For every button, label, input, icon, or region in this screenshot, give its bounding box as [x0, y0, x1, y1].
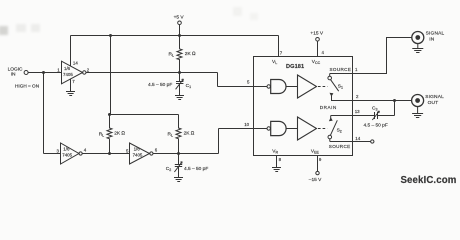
- svg-text:SIGNAL: SIGNAL: [425, 94, 444, 100]
- svg-text:4.5 – 50 pF: 4.5 – 50 pF: [148, 82, 172, 88]
- svg-text:13: 13: [355, 109, 360, 114]
- svg-text:7405: 7405: [62, 153, 72, 158]
- junction +5V rail at feed: [109, 34, 112, 37]
- wire U1A output to node B: [86, 72, 218, 74]
- junction U1B out node: [108, 152, 111, 155]
- resistor RL lower-mid 2K: [176, 115, 181, 154]
- wire gate B to buffer B: [286, 128, 297, 130]
- driver gate B input bubble: [267, 127, 270, 130]
- ground below U1A: [66, 92, 75, 96]
- wire step up to pin 10: [218, 129, 220, 154]
- svg-text:14: 14: [73, 61, 78, 66]
- connector SIGNAL IN: [412, 32, 424, 44]
- junction +5V rail at terminal: [178, 34, 181, 37]
- driver gate A body: [271, 80, 286, 94]
- svg-text:SOURCE: SOURCE: [329, 144, 351, 149]
- ground below C2: [174, 178, 183, 182]
- wire rail to DG181 pin 7: [278, 36, 280, 57]
- inverter U1C 1/6 7405 triangle: [130, 143, 150, 164]
- svg-text:1/6: 1/6: [63, 146, 70, 151]
- terminal -15V: [316, 171, 319, 174]
- switch S2 drain arrowhead: [329, 117, 333, 121]
- dashed control line B: [318, 128, 327, 130]
- switch S1 drain arrowhead: [330, 93, 334, 97]
- switch S2 arm: [330, 120, 337, 135]
- svg-text:+15 V: +15 V: [310, 31, 323, 37]
- buffer B triangle: [298, 117, 317, 140]
- driver gate A input bubble: [267, 85, 270, 88]
- inverter U1C output bubble: [150, 152, 153, 155]
- wire C3 up to output node: [394, 101, 396, 116]
- capacitor C1 variable 4.5-50 pF: [176, 73, 184, 96]
- resistor RL lower-left 2K: [107, 115, 112, 154]
- wire source S1 pin 1 to SIGNAL IN: [330, 38, 412, 74]
- wire lower feed horizontal: [111, 114, 179, 116]
- wire U1B output to U1C input: [82, 153, 129, 155]
- inverter U1A output bubble: [83, 71, 86, 74]
- wire into DG181 pin 5: [218, 86, 268, 88]
- DG181 package box U2: [254, 57, 353, 156]
- wire inverter U1A pin 14 to rail: [70, 36, 72, 67]
- capacitor C2 variable 4.5-50 pF: [174, 154, 182, 178]
- svg-text:SOURCE: SOURCE: [330, 67, 352, 72]
- wire gate A to buffer A: [286, 86, 297, 88]
- svg-text:7405: 7405: [133, 153, 143, 158]
- inverter U1A 1/6 7405 triangle: [62, 61, 83, 84]
- terminal +5V: [178, 21, 182, 25]
- buffer A triangle: [298, 75, 317, 98]
- junction lower feed at RL: [108, 113, 111, 116]
- switch S1 stub to source wire: [329, 74, 331, 77]
- svg-text:7405: 7405: [63, 72, 73, 77]
- ground below SIGNAL OUT: [412, 107, 423, 118]
- driver gate B body: [271, 121, 286, 135]
- terminal +15V: [316, 38, 320, 42]
- junction node A at logic input split: [42, 71, 45, 74]
- ground below C1: [175, 96, 184, 100]
- wire U1C output to step: [153, 153, 218, 155]
- capacitor C3 variable 4.5-50 pF: [372, 111, 394, 120]
- ground below pin 8: [272, 168, 281, 172]
- wire node A down to lower inverter: [43, 73, 45, 154]
- switch S1 drain wire: [332, 96, 353, 101]
- wire +5V terminal stem to resistor: [179, 25, 181, 49]
- inverter U1B 1/6 7405 triangle: [61, 143, 79, 164]
- svg-text:IN: IN: [11, 71, 16, 77]
- junction U1C out node at C2: [177, 152, 180, 155]
- svg-text:HIGH = ON: HIGH = ON: [15, 83, 39, 88]
- wire DG181 pin 9 stem to -15V: [317, 156, 319, 172]
- svg-text:OUT: OUT: [428, 100, 439, 106]
- terminal LOGIC IN: [24, 71, 28, 75]
- svg-text:2K Ω: 2K Ω: [114, 131, 125, 137]
- switch S2 drain wire: [330, 116, 332, 121]
- svg-text:10: 10: [244, 122, 249, 127]
- open terminal pin 14: [371, 140, 374, 143]
- wire DG181 pin 8 stem: [276, 156, 278, 168]
- switch S1 arm: [331, 80, 339, 92]
- inverter U1B output bubble: [79, 152, 82, 155]
- wire step down to pin 5: [217, 73, 219, 87]
- resistor RL top 2K: [177, 49, 182, 73]
- svg-text:1/6: 1/6: [64, 66, 71, 71]
- junction node B at C1: [178, 71, 181, 74]
- wire U1A pin 7 to ground: [70, 79, 72, 92]
- svg-text:1/6: 1/6: [134, 146, 141, 151]
- svg-text:4.5 – 50 pF: 4.5 – 50 pF: [184, 166, 208, 172]
- wire DG181 pin 4 stem: [317, 41, 319, 56]
- wire into DG181 pin 10: [219, 128, 268, 130]
- switch S2 source contact circle: [328, 135, 332, 139]
- junction signal out node: [393, 99, 396, 102]
- wire rail feed down to lower resistors: [110, 36, 112, 115]
- svg-text:SeekIC.com: SeekIC.com: [401, 175, 457, 186]
- wire into U1B input: [44, 153, 61, 155]
- wire LOGIC IN to U1A input: [28, 72, 61, 74]
- wire drain S1 pin 2 to SIGNAL OUT: [353, 100, 412, 102]
- wire source S2 pin 14 to open terminal: [330, 141, 371, 143]
- connector SIGNAL OUT: [412, 95, 424, 107]
- svg-text:IN: IN: [429, 36, 435, 42]
- svg-text:–15 V: –15 V: [309, 177, 322, 183]
- svg-text:4.5 – 50 pF: 4.5 – 50 pF: [364, 122, 388, 128]
- svg-text:2K Ω: 2K Ω: [184, 131, 195, 137]
- svg-text:14: 14: [355, 136, 360, 141]
- wire +5V rail: [71, 35, 279, 37]
- svg-text:DG181: DG181: [286, 64, 304, 70]
- dashed control line A: [318, 86, 328, 88]
- switch S2 stub to source wire: [329, 139, 331, 142]
- svg-text:+5 V: +5 V: [174, 14, 185, 20]
- svg-text:SIGNAL: SIGNAL: [426, 31, 445, 37]
- wire drain S2 pin 13 to C3: [331, 115, 374, 117]
- svg-text:2K Ω: 2K Ω: [185, 51, 196, 57]
- ground below SIGNAL IN: [412, 44, 423, 53]
- switch S1 source contact circle: [328, 76, 332, 80]
- svg-text:DRAIN: DRAIN: [320, 105, 337, 110]
